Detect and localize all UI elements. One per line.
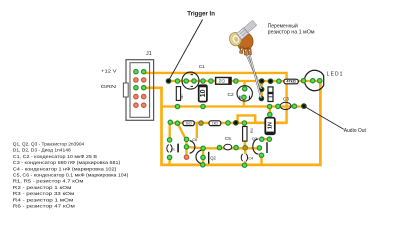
transistor Q2 [190, 141, 209, 164]
wire mid rail y106 [162, 105, 303, 107]
resistor R6 [284, 79, 298, 84]
wire +12V rail [144, 73, 287, 123]
capacitor C1 [199, 85, 207, 101]
capacitor C3 [280, 102, 291, 109]
node D1 pads [267, 112, 273, 118]
svg-text:J1: J1 [146, 51, 152, 57]
node y147 rail pads [217, 145, 223, 151]
svg-text:R1, R5 - резистор 4.7 кОм: R1, R5 - резистор 4.7 кОм [13, 179, 84, 184]
svg-text:R4: R4 [250, 128, 254, 133]
svg-text:47kΩ: 47kΩ [286, 80, 295, 84]
svg-text:Q3: Q3 [252, 136, 258, 141]
svg-text:+12 V: +12 V [101, 68, 117, 74]
wire C2 top stub [243, 81, 245, 89]
wire R4 top stub [244, 123, 246, 127]
svg-text:R2 - резистор 1 кОм: R2 - резистор 1 кОм [13, 185, 72, 190]
wire D1 top stub [269, 107, 271, 115]
resistor R4 [243, 127, 254, 142]
potentiometer photo [228, 20, 261, 98]
pot bushing nut [237, 28, 249, 40]
wire GRN ground loop [144, 81, 321, 165]
resistor R3 [209, 121, 221, 126]
svg-text:C4 - конденсатор 1 нФ (маркиро: C4 - конденсатор 1 нФ (маркировка 102) [13, 166, 117, 171]
wire bottom rail y123 [170, 122, 287, 124]
svg-text:GRN: GRN [101, 84, 117, 90]
svg-text:D1, D2, D3 - Диод 1n4148: D1, D2, D3 - Диод 1n4148 [13, 148, 71, 153]
svg-text:C4: C4 [248, 156, 253, 160]
pot wire 1 [245, 52, 261, 90]
LED LED1 [305, 70, 324, 90]
node bottom rail y123 pads [175, 120, 181, 126]
wire signal rail y81 [169, 80, 320, 82]
svg-text:LED1: LED1 [327, 72, 344, 78]
pot legs [239, 47, 251, 55]
wire Q3 emitter stub [260, 155, 262, 165]
svg-text:резистор на 1 мОм: резистор на 1 мОм [268, 30, 315, 36]
wire Q2 emitter vertical [202, 148, 204, 165]
svg-text:C2: C2 [228, 92, 234, 98]
node C6 pads [167, 137, 173, 143]
svg-text:4k7: 4k7 [180, 94, 184, 99]
svg-text:1kΩ: 1kΩ [212, 121, 219, 125]
node Q3 pads [259, 153, 265, 159]
capacitor C6 [167, 144, 178, 153]
diode D2 [216, 78, 232, 85]
svg-text:R6 - резистор 47 кОм: R6 - резистор 47 кОм [13, 204, 75, 209]
svg-text:Trigger In: Trigger In [187, 11, 215, 18]
node audio out pad [301, 103, 307, 109]
svg-text:R4 - резистор 1 мОм: R4 - резистор 1 мОм [13, 197, 74, 202]
J1 pads [133, 69, 146, 108]
wire C6 vertical lower [168, 156, 170, 165]
capacitor C2 [237, 86, 252, 101]
pot body [238, 34, 254, 50]
wire Q2 base vertical [196, 123, 198, 138]
transistor Q1 [182, 72, 199, 89]
resistor R5 [268, 87, 273, 102]
svg-text:1N: 1N [268, 122, 274, 129]
node trigger pad [166, 78, 172, 84]
node pot wire pads [259, 87, 265, 93]
svg-text:C3: C3 [283, 97, 289, 102]
connector J1 [123, 60, 153, 121]
wire C2 bottom stub [243, 97, 245, 106]
diode D1 [265, 118, 275, 135]
legend [13, 141, 129, 208]
node mid rail pads [175, 104, 181, 110]
trigger leader line [169, 20, 203, 81]
svg-text:C5, C6 - конденсатор 0.1 мкФ (: C5, C6 - конденсатор 0.1 мкФ (маркировка… [13, 173, 129, 178]
wire Q2 diagonal [178, 123, 186, 139]
wire pot terminal stub [261, 81, 263, 99]
svg-text:R3 - резистор 33 кОм: R3 - резистор 33 кОм [13, 191, 75, 196]
capacitor C4 [241, 154, 253, 161]
wire Q2 collector vertical [185, 139, 187, 157]
wire R4 bottom stub [244, 141, 246, 148]
resistor R1 [176, 87, 184, 101]
svg-text:C6: C6 [192, 137, 198, 142]
wire D1 bottom link [261, 138, 269, 140]
svg-text:C6: C6 [171, 148, 175, 152]
wire base rail y147 [187, 147, 260, 148]
svg-text:Q2: Q2 [210, 156, 216, 161]
node Q2 pads [184, 137, 190, 143]
svg-text:D2: D2 [218, 79, 224, 84]
capacitor C5 [224, 144, 232, 150]
resistor R2 [183, 121, 194, 126]
wire C6 vertical upper [169, 123, 171, 141]
pot shaft [243, 20, 257, 33]
svg-text:Q1, Q2, Q3 - Транзистор 2n3904: Q1, Q2, Q3 - Транзистор 2n3904 [13, 141, 85, 146]
svg-text:Audio Out: Audio Out [344, 128, 367, 134]
pot wire 2 [249, 53, 261, 99]
svg-text:C5: C5 [225, 136, 231, 141]
transistor Q3 [253, 139, 267, 154]
node rail corner pad [168, 120, 174, 126]
pot brass cover [228, 31, 243, 47]
wire C4 upper stub [244, 148, 246, 154]
node C4 bottom pad [242, 162, 248, 168]
audio out leader line [304, 106, 344, 129]
svg-text:C3 - конденсатор 680 пФ (марки: C3 - конденсатор 680 пФ (маркировка 681) [13, 160, 121, 165]
svg-text:10: 10 [200, 89, 207, 97]
svg-text:C1, C2 - конденсатор 10 мкФ 25: C1, C2 - конденсатор 10 мкФ 25 В [13, 154, 97, 159]
wire C4 lower stub [244, 161, 246, 165]
node C2 pads [242, 86, 248, 92]
circuit pads [166, 78, 323, 168]
svg-text:C1: C1 [199, 64, 205, 70]
svg-text:1kΩ: 1kΩ [186, 121, 193, 125]
svg-text:Переменный: Переменный [268, 22, 298, 29]
